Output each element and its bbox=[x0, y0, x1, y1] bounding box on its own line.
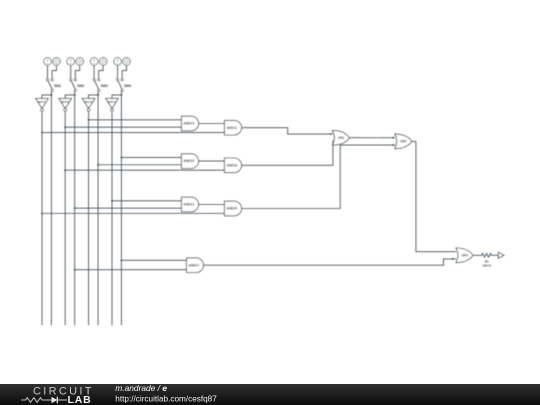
wire bbox=[117, 65, 119, 78]
svg-text:NOT2: NOT2 bbox=[61, 100, 69, 104]
wire bbox=[93, 65, 95, 78]
voltage source V1 bbox=[44, 58, 52, 66]
or-gate OR1 bbox=[332, 130, 349, 145]
switch SW4 bbox=[116, 79, 131, 92]
wire bbox=[89, 92, 99, 99]
wire bbox=[242, 145, 395, 208]
and-gate AND11 bbox=[225, 120, 242, 135]
junction bbox=[74, 269, 76, 271]
clock source CLK3 bbox=[99, 58, 107, 66]
svg-text:NOT4: NOT4 bbox=[108, 100, 116, 104]
svg-text:AND11: AND11 bbox=[226, 126, 237, 130]
and-gate AND23 bbox=[225, 201, 242, 216]
wire bbox=[199, 160, 225, 162]
clock source CLK4 bbox=[123, 58, 131, 66]
footer bar bbox=[0, 384, 540, 405]
wire bbox=[112, 200, 182, 202]
and-gate AND17 bbox=[187, 258, 204, 273]
wire bbox=[42, 132, 225, 134]
junction bbox=[393, 137, 395, 139]
or-gate OR4 bbox=[456, 248, 473, 263]
svg-text:AND17: AND17 bbox=[188, 263, 199, 267]
logo resistor zigzag bbox=[21, 398, 46, 403]
wire bbox=[99, 65, 103, 78]
svg-text:100 Ω: 100 Ω bbox=[483, 263, 492, 267]
svg-text:SW2: SW2 bbox=[77, 84, 84, 88]
wire bus direct 1 bbox=[50, 95, 52, 325]
wire bus inverted 4 bbox=[111, 111, 113, 325]
wire bbox=[349, 137, 394, 139]
wire bbox=[75, 269, 187, 271]
svg-text:OR1: OR1 bbox=[338, 136, 345, 140]
output flag OUT bbox=[498, 252, 504, 258]
inverter NOT1 bbox=[36, 99, 49, 112]
switch SW3 bbox=[93, 79, 108, 92]
switch SW1 bbox=[46, 79, 61, 92]
switch SW2 bbox=[70, 79, 85, 92]
junction bbox=[121, 94, 123, 96]
svg-text:OR4: OR4 bbox=[461, 253, 468, 257]
inverter NOT4 bbox=[106, 99, 119, 112]
wire bbox=[493, 254, 499, 256]
wire bbox=[47, 65, 49, 78]
junction bbox=[111, 200, 113, 202]
junction bbox=[74, 94, 76, 96]
and-gate AND15 bbox=[182, 154, 199, 169]
junction bbox=[41, 213, 43, 215]
wire bbox=[42, 92, 51, 99]
wire bbox=[412, 141, 456, 251]
wire bbox=[242, 128, 333, 134]
wire bbox=[75, 207, 182, 209]
clock source CLK1 bbox=[53, 58, 61, 66]
svg-text:AND21: AND21 bbox=[183, 203, 194, 207]
svg-text:SW3: SW3 bbox=[101, 84, 108, 88]
junction bbox=[452, 258, 454, 260]
voltage source V2 bbox=[67, 58, 75, 66]
wire bbox=[121, 259, 186, 261]
wire bbox=[42, 212, 225, 214]
svg-text:AND14: AND14 bbox=[183, 122, 194, 126]
voltage source V4 bbox=[114, 58, 122, 66]
wire bbox=[70, 65, 72, 78]
svg-text:LAB: LAB bbox=[68, 395, 92, 405]
wire bbox=[52, 65, 56, 78]
svg-text:OR2: OR2 bbox=[400, 140, 407, 144]
wire bbox=[98, 164, 181, 166]
junction bbox=[330, 133, 332, 135]
wire bbox=[65, 169, 224, 171]
wire bbox=[199, 123, 225, 125]
wire bbox=[242, 141, 335, 165]
svg-text:SW1: SW1 bbox=[54, 84, 61, 88]
wire bbox=[122, 65, 126, 78]
wire bbox=[204, 259, 457, 265]
junction bbox=[121, 260, 123, 262]
or-gate OR2 bbox=[395, 134, 412, 149]
wire bbox=[89, 119, 182, 121]
svg-text:SW4: SW4 bbox=[124, 84, 131, 88]
junction bbox=[51, 94, 53, 96]
junction bbox=[97, 164, 99, 166]
and-gate AND21 bbox=[182, 197, 199, 212]
wire bbox=[75, 65, 79, 78]
inverter NOT2 bbox=[59, 99, 72, 112]
voltage source V3 bbox=[90, 58, 98, 66]
junction bbox=[393, 144, 395, 146]
resistor R1 bbox=[481, 253, 493, 267]
junction bbox=[121, 157, 123, 159]
svg-text:NOT1: NOT1 bbox=[38, 100, 46, 104]
wire bbox=[199, 204, 225, 206]
junction bbox=[64, 126, 66, 128]
wire bbox=[65, 126, 181, 128]
junction bbox=[88, 119, 90, 121]
wire bbox=[65, 92, 75, 99]
wire bus direct 2 bbox=[74, 95, 76, 325]
logo diode symbol bbox=[46, 399, 52, 401]
wire bus inverted 3 bbox=[88, 111, 90, 325]
junction bbox=[41, 132, 43, 134]
wire bbox=[112, 92, 121, 99]
wire bbox=[121, 156, 181, 158]
svg-text:NOT3: NOT3 bbox=[85, 100, 93, 104]
svg-text:AND15: AND15 bbox=[183, 159, 194, 163]
junction bbox=[97, 94, 99, 96]
and-gate AND16 bbox=[225, 158, 242, 173]
wire bus inverted 2 bbox=[64, 111, 66, 325]
junction bbox=[74, 207, 76, 209]
wire bus direct 4 bbox=[120, 95, 122, 325]
junction bbox=[64, 169, 66, 171]
wire bus direct 3 bbox=[97, 95, 99, 325]
clock source CLK2 bbox=[76, 58, 84, 66]
svg-text:m.andrade / e: m.andrade / e bbox=[115, 384, 167, 393]
inverter NOT3 bbox=[82, 99, 95, 112]
wire bbox=[473, 254, 481, 256]
wire bus inverted 1 bbox=[41, 111, 43, 325]
svg-text:AND16: AND16 bbox=[226, 163, 237, 167]
svg-text:AND23: AND23 bbox=[226, 207, 237, 211]
and-gate AND14 bbox=[182, 116, 199, 131]
svg-text:http://circuitlab.com/cesfq87: http://circuitlab.com/cesfq87 bbox=[115, 395, 217, 404]
